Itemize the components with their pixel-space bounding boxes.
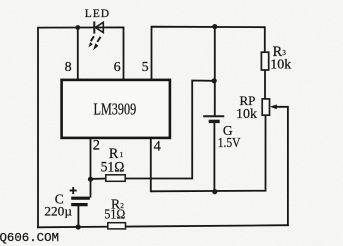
svg-text:RP: RP	[240, 93, 256, 108]
svg-text:6: 6	[114, 60, 121, 75]
svg-text:51Ω: 51Ω	[101, 160, 125, 176]
svg-text:220µ: 220µ	[44, 203, 72, 218]
svg-text:5: 5	[142, 60, 149, 75]
svg-text:10k: 10k	[236, 107, 257, 122]
svg-text:1.5V: 1.5V	[218, 136, 241, 151]
svg-text:2: 2	[93, 137, 100, 153]
svg-text:Q606.COM: Q606.COM	[0, 231, 59, 245]
svg-text:10k: 10k	[270, 57, 291, 72]
svg-text:51Ω: 51Ω	[104, 208, 125, 223]
svg-text:LED: LED	[85, 8, 110, 20]
svg-text:LM3909: LM3909	[94, 100, 137, 119]
svg-text:8: 8	[65, 60, 72, 75]
svg-text:4: 4	[154, 138, 161, 154]
